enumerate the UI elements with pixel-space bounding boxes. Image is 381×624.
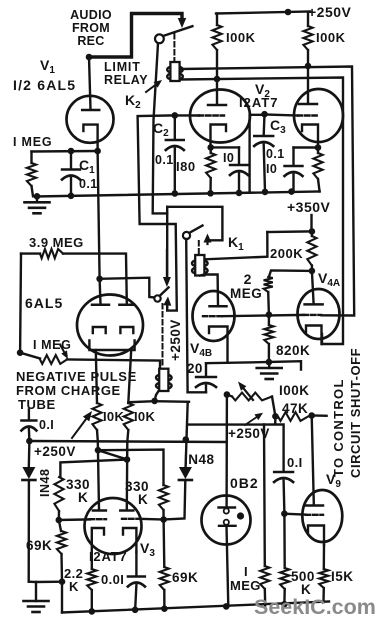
label 1N48 right [184,452,215,467]
label V9 [326,471,341,490]
node grid divider [266,311,273,318]
wire K2 contact down [166,207,168,279]
wire 10K tops [128,401,189,403]
resistor 2.2K [87,552,96,612]
tube 6AL5 plate b [119,304,134,307]
wire 20 bottom jog [188,391,206,393]
ground 820K [257,362,282,379]
wire V1 cathode down [98,151,100,279]
label 47K [282,401,308,416]
svg-text:K: K [138,492,148,507]
wire 250V rail [29,441,226,442]
wire C3 to V2b grid [265,115,299,116]
svg-text:0.1: 0.1 [266,147,285,161]
diode IN48 left [22,441,35,582]
wire V3 plate feed jog [98,450,164,485]
label TO CONTROL [331,378,346,477]
wire 20uF net [188,425,284,472]
wire relay K2 lower contact [181,78,343,345]
diode IN48 right [164,402,192,520]
label 180 [176,159,196,174]
svg-text:FROM CHARGE: FROM CHARGE [16,383,121,398]
node 250V left [26,438,33,445]
resistor 820K [264,315,273,363]
capacitor C2 [166,115,184,193]
tube V2a grid [199,114,224,116]
resistor 2MEG [264,277,273,315]
label 500K [291,569,315,597]
ground V1 stage [25,196,50,213]
svg-text:TUBE: TUBE [18,397,56,412]
svg-text:I80: I80 [176,159,196,174]
wire 47K to control [312,414,327,417]
wire V2b plate lead [307,66,309,103]
label +250V top [308,4,352,20]
capacitor 0.01 [128,552,145,611]
tube V1 plate [82,109,99,112]
node 6AL5 left plate [96,276,103,283]
label 69K b [172,570,198,585]
tube V4B envelope [193,291,235,341]
label 1MEG out [230,564,261,593]
resistor 1MEG out [260,566,269,605]
label AUDIO FROM REC [70,8,112,48]
node 180 top [207,144,214,151]
tube V3 envelope [85,498,142,554]
wire mid rail 350V [35,192,320,197]
wire V1 plate lead [89,57,91,109]
label 100K pot [279,383,310,398]
label 330K a [66,477,90,505]
tube 6AL5 heater [89,341,134,351]
switch K1 pivot [183,232,190,239]
label 10K a [103,409,124,424]
svg-text:REC: REC [77,34,104,48]
label V4A [318,270,340,289]
wire 47K left stub [274,416,277,424]
node V3 grid a [56,517,63,524]
label 200K [270,246,303,261]
resistor 1MEG [27,163,36,186]
svg-text:TO CONTROL: TO CONTROL [331,378,346,477]
wire V4B cathode rail [206,362,269,363]
svg-text:I/2 6AL5: I/2 6AL5 [13,77,76,93]
arrow 1MEG adj [60,345,68,360]
capacitor 10a [230,147,248,193]
wire pot left joins [227,395,232,397]
tube V3 cathode a [92,528,104,552]
wire V9 cathode lead [323,545,326,569]
tube V3 cathode b [123,528,136,552]
svg-text:0.I: 0.I [287,455,303,470]
relay coil charge [156,369,172,391]
node pot left [224,391,231,398]
label 2.2K [64,566,83,594]
svg-text:MEG: MEG [230,578,261,593]
wire OB2 bottom lead [227,526,229,606]
wire 330K a top [60,460,127,478]
wire cathode rail right [269,361,301,369]
arrow K1 moving contact [204,234,212,245]
svg-text:I0K: I0K [134,409,155,424]
node +250V tap [285,9,292,16]
arrow K2 label to coil [146,80,162,92]
label C3 0.1 10 [266,117,286,176]
wire relay coil bottom [155,391,159,401]
watermark [254,595,376,619]
resistor 200K [307,231,316,271]
label +250V left [34,444,76,459]
wire K1 pivot down [186,239,187,392]
svg-text:NEGATIVE PULSE: NEGATIVE PULSE [16,369,137,384]
wire 1MEG adj to coil [67,360,160,369]
switch S1 pivot [155,34,164,43]
svg-text:200K: 200K [270,246,303,261]
capacitor C1 [62,151,80,196]
resistor 69K b [160,520,169,610]
svg-text:2: 2 [244,271,252,287]
label 1MEG adj [33,338,71,352]
switch charge pivot [154,295,160,301]
switch charge blade [160,288,169,297]
wire 3.9MEG right [63,254,127,304]
label 20 [187,361,203,376]
wire C2 to V2a grid [175,114,199,116]
tube V9 envelope [302,490,342,542]
wire +250V top rail [216,12,310,14]
label 100K left [226,30,256,45]
tube V2b plate [299,103,317,106]
relay coil K2 [167,62,183,81]
wire 6AL5 plate a lead [98,279,101,304]
tube 6AL5 plate a [92,304,109,307]
svg-text:IN48: IN48 [38,469,52,497]
label IN48 left rotated [38,469,52,497]
label 6AL5 [25,295,63,311]
tube V2b cathode [302,125,318,148]
wire K1 coil to V4B plate [200,275,218,306]
tube V2a plate [208,104,226,107]
resistor 100K right [303,12,312,66]
tube V3 grid a [90,518,106,520]
node 47K right [308,412,315,419]
wire V3 plate a lead [98,441,99,509]
label C1 0.1 [79,157,98,191]
tube V4A envelope [298,289,340,339]
label 1MEG [13,135,52,149]
capacitor 20 [196,363,216,392]
wire C2 node left [138,115,177,310]
svg-text:0B2: 0B2 [230,475,259,491]
svg-text:CIRCUIT SHUT-OFF: CIRCUIT SHUT-OFF [348,348,363,478]
wire V2a plate lead [216,79,218,104]
capacitor 0.1 coupling [274,472,293,514]
ground bottom left [24,582,49,612]
wire switch feed arrow [178,15,187,28]
tube V4A cathode [306,326,322,345]
label 1/2 6AL5 [13,77,76,93]
svg-text:+250V: +250V [34,444,76,459]
tube V4A plate [305,303,323,306]
label +250V mid [228,426,270,441]
wire 1MEG lead [30,152,32,164]
resistor V2b cathode [313,148,322,192]
svg-text:RELAY: RELAY [104,73,148,87]
tube V4A grid [304,314,321,316]
svg-text:69K: 69K [26,538,52,553]
svg-text:MEG: MEG [230,286,262,301]
tube 6AL5 cathode b [120,327,133,333]
tube OB2 cathode pin [219,520,236,526]
tube V2b envelope [294,89,343,142]
tube V2a cathode [211,125,227,148]
svg-text:I5K: I5K [331,569,354,584]
node V1 cathode row [68,148,101,155]
wire 330K a feed [98,450,127,459]
svg-text:+250V: +250V [308,4,352,20]
wire 200K top left [267,230,312,233]
svg-text:I00K: I00K [279,383,310,398]
svg-text:20: 20 [187,361,203,376]
tube V4B grid [203,315,223,317]
capacitor C3 [254,114,273,192]
wire cathode to cap 10a [211,146,239,148]
label LIMIT RELAY K2 [104,60,148,111]
arrow pulse annotation [72,411,92,438]
resistor 330K b [159,485,168,520]
wire IN48 left join [29,581,36,584]
label CIRCUIT SHUT-OFF [348,348,363,478]
node V2 right plate [305,63,312,70]
tube V4B cathode [209,327,228,363]
wire K2 net to K1 [167,207,222,241]
wire +350V lead [310,215,312,231]
node 47K left [272,413,279,420]
svg-text:I MEG: I MEG [33,338,71,352]
dashed link K1 to coil [198,241,200,253]
label 10K b [134,409,155,424]
label +250V rotated [168,319,183,361]
svg-text:K: K [78,490,88,505]
svg-text:I2AT7: I2AT7 [89,549,127,564]
resistor 100K pot [232,393,272,401]
wire V1 cathode row [32,150,98,153]
node 69K a bottom [59,578,66,585]
wire pot output annotation [245,413,263,425]
tube OB2 anode pin [219,508,236,514]
arrow charge switch upper [163,250,171,287]
wire 6AL5 cathode b lead [128,350,131,403]
tube V2b grid [298,114,317,116]
svg-text:I MEG: I MEG [13,135,52,149]
wire C3 box left [250,115,265,192]
svg-text:0.0I: 0.0I [101,572,124,587]
wire pot right lead [272,397,275,417]
label V1 [40,57,55,76]
tube V3 plate a [93,509,106,512]
label 0.1 coupling [287,455,303,470]
resistor 10K a [92,403,101,441]
dashed link switch to relay K2 [173,34,175,60]
wire V9 grid [284,513,306,516]
label K1 [228,234,244,253]
wire bottom rail start [61,582,63,613]
svg-text:0.1: 0.1 [155,153,174,167]
wire K1 coil feed [205,232,267,259]
label 10a [223,151,234,165]
svg-text:0.1: 0.1 [79,177,98,191]
label 330K b [125,479,149,507]
arrow pot wiper [238,382,253,401]
tube V1 envelope [67,96,114,143]
label V2 12AT7 [239,81,278,110]
resistor 100K left [212,14,221,80]
capacitor 0.1 pulse [21,410,36,442]
label 3.9MEG [29,235,84,250]
svg-text:820K: 820K [276,343,310,358]
node mid rail dots [34,188,295,199]
label 820K [276,343,310,358]
label 69K a [26,538,52,553]
wire to 1MEG adj [20,353,40,359]
label V4B [190,340,212,359]
resistor 180 [206,147,215,193]
label 0.1 pulse [39,418,54,432]
wire cathode to cap 10b [294,146,319,148]
node C3 top [261,111,268,118]
wire 3.9MEG left [20,254,40,353]
wire V3 plate b lead [126,442,129,510]
capacitor 10b [285,148,303,192]
wire bottom rail [62,602,329,613]
svg-text:I00K: I00K [316,30,346,45]
wire audio input to switch [89,14,182,58]
tube V9 plate [306,504,323,507]
node V3 grid b [160,516,167,523]
node 820K bottom [266,359,273,366]
resistor 10K b [124,403,133,442]
switch K1 blade [189,226,203,234]
svg-text:FROM: FROM [72,21,110,35]
node V2 left plate [214,76,221,83]
resistor 3.9MEG [40,249,63,258]
tube OB2 gas dot [237,512,244,519]
relay coil K1 [192,255,208,276]
resistor 330K a [54,477,63,520]
wire OB2 top lead [225,395,228,508]
wire V3 grid b [140,518,164,521]
svg-text:47K: 47K [282,401,308,416]
svg-text:K: K [69,579,79,594]
node 200K bottom [309,268,316,275]
node V2b cathode [315,144,322,151]
wire grid bus [223,315,305,316]
label 2MEG [230,271,262,301]
node 1MEG adj [17,349,24,356]
label OB2 [230,475,259,491]
svg-text:+350V: +350V [287,199,331,215]
wire relay K2 upper contact [181,67,354,316]
tube V4B plate [210,305,227,308]
wire 200K bottom left [269,270,312,277]
tube V3 grid b [122,518,140,520]
label 100K right [316,30,346,45]
node 330K feeds [95,447,131,463]
node V9 grid [281,510,288,517]
svg-text:IN48: IN48 [184,452,215,467]
resistor 1MEG adj [40,355,67,364]
tube V9 cathode [308,526,324,546]
tube 6AL5 envelope [77,295,143,356]
svg-text:+250V: +250V [168,319,183,361]
svg-text:3.9 MEG: 3.9 MEG [29,235,84,250]
tube OB2 envelope [202,496,251,545]
switch S1 blade [162,26,193,36]
label V3 12AT7 [89,540,155,564]
node C2 top [172,112,179,119]
wire 6AL5 cathode a lead [96,350,97,403]
resistor 47K [278,412,308,421]
label +350V [287,199,331,215]
node audio input [86,54,93,61]
label NEGATIVE PULSE FROM CHARGE TUBE [16,369,137,412]
tube 6AL5 cathode a [93,327,106,333]
node bottom rail dots [89,601,288,615]
dashed link charge switch to coil [162,304,164,366]
svg-text:0.I: 0.I [39,418,54,432]
wire 1MEG riser [263,425,266,567]
node 200K top [309,228,316,235]
node relay feed [151,398,158,405]
label 0.01 [101,572,124,587]
node IN48 right top [183,436,190,443]
svg-text:I0: I0 [223,151,234,165]
tube V2a envelope [190,90,250,143]
label C2 0.1 [153,120,174,167]
svg-text:AUDIO: AUDIO [70,8,112,22]
resistor 500K [280,514,289,605]
wire 1MEG bottom [32,186,34,196]
tube V1 cathode [83,125,97,151]
wire 6AL5 to switch pivot [100,278,155,298]
svg-text:69K: 69K [172,570,198,585]
svg-text:I: I [244,564,248,579]
tube V9 grid [306,514,323,516]
svg-text:I0: I0 [266,162,277,176]
svg-text:SeekIC.com: SeekIC.com [254,595,376,619]
wire ground left bottom [36,581,62,584]
wire switch pivot down [153,43,168,213]
resistor 69K a [57,520,66,582]
wire V4A plate lead [312,271,314,304]
resistor 15K [319,569,328,602]
svg-text:I00K: I00K [226,30,256,45]
tube V3 plate b [120,509,133,512]
svg-text:6AL5: 6AL5 [25,295,63,311]
svg-text:LIMIT: LIMIT [104,60,141,74]
arrow charge switch lower [163,297,171,308]
wire V9 plate lead [312,416,314,505]
wire V3 grid a [59,518,90,521]
label 15K [331,569,354,584]
